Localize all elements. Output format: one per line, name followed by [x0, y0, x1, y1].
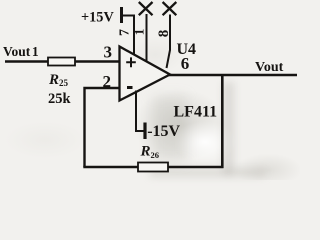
- op-amp U4 triangle: [120, 47, 171, 101]
- wire output: [169, 74, 297, 76]
- wire bottom left to R26: [83, 166, 139, 169]
- wire R25 to pin 3: [75, 60, 119, 62]
- svg-text:-15V: -15V: [147, 123, 180, 140]
- power +15V terminal bar: [120, 7, 123, 23]
- svg-text:LF411: LF411: [174, 104, 218, 121]
- wire pin 1: [146, 14, 148, 62]
- resistor R26: [138, 163, 168, 172]
- wire input to R25: [5, 60, 49, 62]
- svg-text:8: 8: [156, 30, 172, 38]
- svg-text:Vout1: Vout1: [3, 44, 39, 59]
- wire R26 to feedback vertical: [168, 166, 224, 169]
- power -15V terminal bar: [143, 123, 146, 140]
- pin 1 no-connect X: [139, 2, 153, 15]
- svg-text:+15V: +15V: [81, 10, 114, 26]
- svg-text:3: 3: [104, 43, 113, 62]
- svg-text:R25: R25: [48, 72, 69, 88]
- svg-text:Vout: Vout: [255, 60, 284, 75]
- wire pin 4: [136, 91, 144, 132]
- svg-text:7: 7: [118, 29, 133, 36]
- op-amp plus input mark: [126, 57, 136, 67]
- wire pin 7: [123, 16, 135, 56]
- svg-text:R26: R26: [140, 144, 160, 161]
- resistor R25: [48, 58, 75, 66]
- wire feedback vertical: [221, 75, 224, 169]
- pin 8 no-connect X: [163, 2, 177, 15]
- wire pin 8: [167, 15, 171, 69]
- svg-text:1: 1: [131, 29, 146, 36]
- op-amp minus input mark: [127, 86, 133, 89]
- svg-text:6: 6: [181, 54, 190, 73]
- svg-text:2: 2: [103, 72, 112, 91]
- svg-text:25k: 25k: [48, 91, 72, 107]
- wire pin 2 to feedback corner: [85, 88, 120, 167]
